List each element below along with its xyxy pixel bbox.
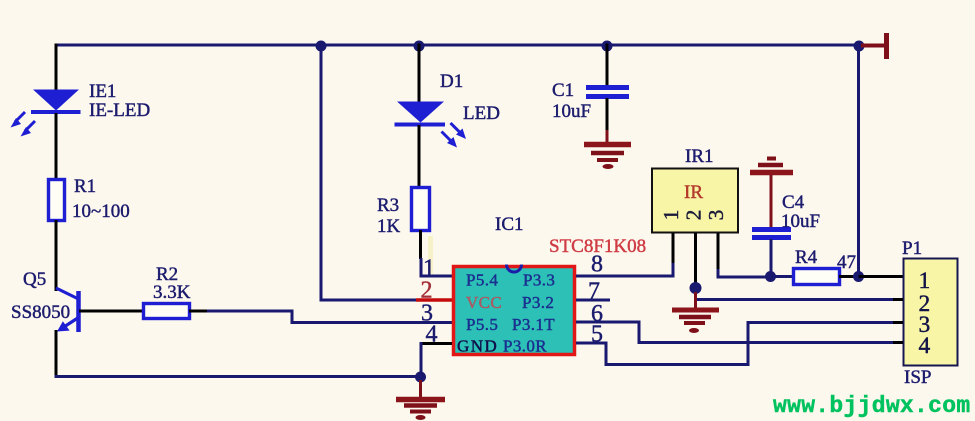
- IC pin number 8: [591, 252, 603, 278]
- transistor Q5: [56, 288, 79, 332]
- P1 pin number 2: [919, 291, 931, 317]
- svg-text:D1: D1: [440, 71, 463, 92]
- LED D1 emission arrows: [442, 123, 467, 148]
- IC pin number 4: [426, 322, 438, 348]
- label 3.3K value: [153, 282, 191, 303]
- resistor R4: [794, 269, 840, 285]
- svg-text:IE1: IE1: [89, 81, 116, 102]
- label STC8F1K08: [549, 236, 646, 257]
- svg-text:SS8050: SS8050: [11, 302, 70, 323]
- wire R3 to IC pin1: [421, 258, 452, 276]
- wire top rail VCC: [56, 44, 860, 47]
- label R2: [156, 264, 178, 285]
- svg-text:IR1: IR1: [685, 146, 714, 167]
- IC pin name P3.1T: [512, 315, 555, 334]
- svg-text:P3.1T: P3.1T: [512, 315, 555, 334]
- svg-text:P5.4: P5.4: [466, 271, 498, 290]
- label IR1: [685, 146, 714, 167]
- label D1: [440, 71, 463, 92]
- wire IC pin5 to P1 pin3: [576, 323, 903, 365]
- svg-text:3: 3: [704, 210, 728, 221]
- label IE-LED: [89, 100, 150, 121]
- svg-text:www.bjjdwx.com: www.bjjdwx.com: [773, 393, 970, 419]
- P1 pin number 4: [919, 333, 931, 359]
- svg-text:P3.2: P3.2: [522, 293, 554, 312]
- svg-text:47: 47: [837, 252, 856, 273]
- capacitor C1: [586, 88, 629, 97]
- svg-text:R4: R4: [795, 247, 818, 268]
- svg-text:P3.3: P3.3: [523, 271, 555, 290]
- label 47 value: [837, 252, 856, 273]
- P1 pin3 stub: [893, 321, 903, 324]
- wire vertical from rail to R4 row: [857, 45, 860, 277]
- svg-text:R3: R3: [377, 195, 399, 216]
- P1 connector body: [904, 259, 958, 366]
- IR1 pin1 lead: [672, 233, 675, 263]
- IC pin number 5: [591, 322, 603, 348]
- wire lead D1 to R3: [418, 125, 421, 188]
- label IR: [684, 182, 703, 203]
- label IE1: [89, 81, 116, 102]
- IC pin name P3.3: [523, 271, 555, 290]
- wire IR1 pin2 to P1 pin2: [696, 288, 904, 300]
- wire rail to IC pin2 vertical: [321, 45, 417, 300]
- label R1: [74, 176, 96, 197]
- label 10uF value C4: [781, 211, 820, 232]
- svg-text:1K: 1K: [377, 216, 401, 237]
- svg-text:C4: C4: [782, 192, 805, 213]
- wire lead R1 to Q5 collector: [55, 220, 58, 291]
- ground under IR1 pin2: [672, 310, 719, 333]
- svg-text:8: 8: [591, 252, 603, 278]
- LED IE1 emission arrows: [11, 112, 36, 137]
- label R4: [795, 247, 818, 268]
- P1 pin number 1: [919, 268, 931, 294]
- label P1: [902, 238, 922, 259]
- IC pin name GND: [457, 337, 498, 356]
- label C1: [552, 80, 574, 101]
- IC notch arc: [507, 265, 522, 273]
- wire lead IE1 to R1: [55, 113, 58, 180]
- resistor R1: [49, 180, 65, 221]
- wire ground to C4: [770, 175, 773, 228]
- wire VCC red segment to pin2: [416, 298, 452, 302]
- node rail junction at x=419: [414, 41, 425, 52]
- wire IR1 pin3 to C4 node: [718, 269, 770, 277]
- svg-text:P3.0R: P3.0R: [503, 337, 547, 356]
- svg-text:10uF: 10uF: [552, 101, 591, 122]
- IC U1 chip body: [454, 267, 575, 355]
- wire node to R4: [770, 275, 794, 278]
- IR1 pin number 2 rotated: [681, 210, 705, 221]
- P1 pin number 3: [919, 312, 931, 338]
- svg-text:10uF: 10uF: [781, 211, 820, 232]
- wire junction to ground: [419, 380, 422, 398]
- wire IC pin7 stub: [576, 299, 610, 302]
- IR1 pin number 3 rotated: [704, 210, 728, 221]
- P1 pin2 stub: [893, 298, 903, 301]
- IC pin number 7: [588, 279, 600, 305]
- LED D1: [395, 102, 446, 125]
- wire C1 to ground: [606, 130, 609, 143]
- wire C4 to R4 node: [770, 239, 773, 277]
- power tick top right: [861, 33, 887, 59]
- svg-text:10~100: 10~100: [72, 201, 130, 222]
- node rail junction at x=607: [602, 41, 613, 52]
- node rail right end junction: [854, 41, 865, 52]
- IR1 pin number 1 rotated: [659, 210, 683, 221]
- wire bottom net emitter to pin4 junction: [55, 375, 421, 378]
- IC pin number 6: [591, 301, 603, 327]
- svg-text:VCC: VCC: [466, 293, 502, 312]
- wire IR1 pin2 to ground: [694, 292, 697, 308]
- label IC1: [495, 214, 524, 235]
- artifact faint yellow streak: [428, 236, 433, 274]
- node bottom junction: [415, 372, 426, 383]
- IC pin name P3.2: [522, 293, 554, 312]
- svg-text:IC1: IC1: [495, 214, 524, 235]
- wire node to P1 pin1: [859, 275, 904, 278]
- svg-text:R1: R1: [74, 176, 96, 197]
- resistor R3: [412, 188, 430, 231]
- IC pin number 3: [421, 301, 433, 327]
- label ISP: [904, 367, 931, 388]
- wire lead rail to IE1: [55, 44, 58, 92]
- label R3: [377, 195, 399, 216]
- IC pin name VCC: [466, 293, 502, 312]
- svg-text:3.3K: 3.3K: [153, 282, 191, 303]
- IR1 pin2 lead: [694, 233, 697, 288]
- wire lead R3 down: [419, 230, 422, 259]
- wire lead rail to C1: [606, 44, 609, 87]
- ground under IC pin4: [396, 400, 445, 421]
- node IR1 pin2 junction: [690, 282, 702, 294]
- wire IC pin8 to IR1 pin1: [576, 262, 673, 276]
- svg-text:1: 1: [659, 210, 683, 221]
- wire lead R2 right: [189, 310, 208, 313]
- svg-text:IR: IR: [684, 182, 703, 203]
- wire lead C1 down: [606, 98, 609, 132]
- svg-text:GND: GND: [457, 337, 498, 356]
- IC pin name P5.4: [466, 271, 498, 290]
- IC pin number 1: [423, 256, 435, 282]
- wire R2 to IC pin3: [207, 311, 452, 323]
- wire lead Q5 emitter down: [55, 330, 58, 376]
- svg-text:Q5: Q5: [23, 269, 46, 290]
- IR1 receiver body: [652, 169, 738, 233]
- ground inverted above C4: [750, 159, 793, 173]
- svg-text:LED: LED: [463, 103, 500, 124]
- label LED: [463, 103, 500, 124]
- resistor R2: [144, 304, 190, 319]
- IC pin number 2: [421, 278, 433, 304]
- svg-text:ISP: ISP: [904, 367, 931, 388]
- ground under C1: [584, 145, 631, 170]
- node rail junction at x=321: [316, 41, 327, 52]
- svg-text:4: 4: [919, 333, 931, 359]
- IC pin name P5.5: [466, 315, 498, 334]
- capacitor C4: [752, 230, 791, 238]
- svg-text:C1: C1: [552, 80, 574, 101]
- svg-text:2: 2: [681, 210, 705, 221]
- label Q5: [23, 269, 46, 290]
- label 10~100 value: [72, 201, 130, 222]
- IR1 pin3 lead: [717, 233, 720, 270]
- svg-text:P1: P1: [902, 238, 922, 259]
- svg-text:P5.5: P5.5: [466, 315, 498, 334]
- wire R4 to node: [839, 275, 859, 278]
- LED IE1: [31, 90, 81, 113]
- watermark www.bjjdwx.com: [773, 393, 970, 419]
- label 1K value: [377, 216, 401, 237]
- wire IC pin4 to ground junction: [421, 342, 452, 377]
- P1 pin4 stub: [893, 341, 903, 344]
- node R4 rail junction: [853, 271, 864, 282]
- label 10uF value C1: [552, 101, 591, 122]
- IC pin name P3.0R: [503, 337, 547, 356]
- label SS8050: [11, 302, 70, 323]
- node C4 junction: [765, 271, 776, 282]
- wire lead Q5 base to R2: [79, 310, 144, 313]
- wire IC pin6 to P1 pin4: [576, 322, 903, 343]
- wire lead rail to D1: [418, 44, 421, 104]
- svg-text:IE-LED: IE-LED: [89, 100, 150, 121]
- label C4: [782, 192, 805, 213]
